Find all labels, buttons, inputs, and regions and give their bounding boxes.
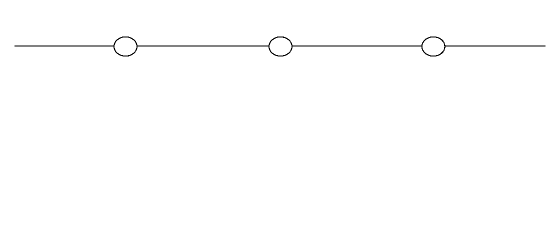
node B (middle circle) xyxy=(269,37,292,56)
node C (right circle) xyxy=(422,37,445,56)
wire xyxy=(15,45,546,47)
node A (left circle) xyxy=(114,37,137,56)
